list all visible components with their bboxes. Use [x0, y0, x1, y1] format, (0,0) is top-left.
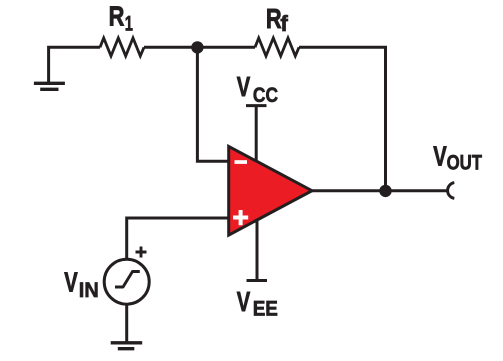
power VCC terminal: [246, 106, 267, 162]
terminal VOUT (open connector): [448, 183, 455, 199]
resistor Rf: [255, 38, 299, 56]
ground (under VIN): [111, 343, 143, 349]
wire: VIN to op-amp non-inverting input: [127, 218, 230, 260]
svg-text:CC: CC: [253, 84, 278, 107]
svg-text:EE: EE: [253, 298, 278, 321]
op-amp U1: [229, 146, 312, 235]
source VIN: [104, 247, 149, 305]
label VEE: [237, 287, 278, 321]
wire: op-amp output: [312, 189, 447, 192]
op-amp inverting pin mark (-): [235, 160, 248, 164]
wire: ground to R1 (top left): [49, 47, 100, 82]
power VEE terminal: [247, 220, 268, 281]
label VOUT: [433, 141, 482, 175]
svg-text:V: V: [237, 72, 251, 103]
label VCC: [237, 72, 278, 107]
svg-text:R: R: [266, 3, 282, 34]
wire: VIN to ground: [125, 304, 128, 342]
ground (at R1 left terminal): [34, 83, 65, 89]
svg-text:IN: IN: [79, 278, 99, 302]
svg-text:V: V: [433, 141, 447, 172]
label R1: [109, 1, 133, 35]
svg-text:OUT: OUT: [447, 152, 483, 175]
svg-text:1: 1: [125, 12, 133, 35]
node B (output junction): [379, 185, 391, 197]
node A (inverting input junction): [191, 41, 203, 53]
label Rf: [266, 3, 289, 35]
wire: Rf to output node (feedback): [299, 47, 386, 191]
svg-text:f: f: [280, 11, 288, 36]
wire: junction to op-amp inverting input: [197, 47, 230, 161]
source waveform: [115, 272, 140, 288]
wire: R1 to Rf: [144, 46, 255, 49]
svg-text:V: V: [237, 287, 251, 318]
svg-text:V: V: [64, 267, 78, 298]
svg-text:R: R: [109, 1, 125, 32]
source polarity +: [136, 247, 147, 258]
resistor R1: [100, 38, 144, 56]
label VIN: [64, 267, 99, 302]
op-amp non-inverting pin mark (+): [233, 210, 248, 225]
